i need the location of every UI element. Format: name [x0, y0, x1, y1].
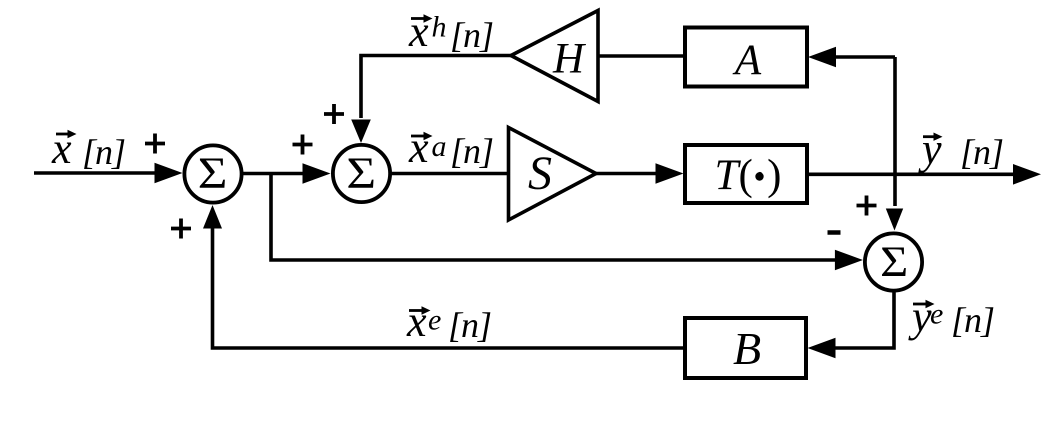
plus sign at sum2 left input — [293, 135, 313, 155]
svg-text:y: y — [908, 292, 932, 341]
wire box A output to H input — [598, 54, 685, 58]
summing junction sum2 — [333, 145, 390, 202]
arrowhead into box B right — [808, 338, 836, 359]
wire output y[n] — [806, 173, 1014, 177]
svg-text:Σ: Σ — [198, 149, 228, 198]
arrowhead into box A right — [808, 47, 836, 68]
svg-text:T(·): T(·) — [715, 152, 782, 199]
box B — [685, 318, 806, 378]
svg-text:[n]: [n] — [450, 131, 493, 171]
svg-text:A: A — [732, 37, 762, 84]
wire tap from output vertical to box A — [836, 55, 895, 59]
gain triangle S — [509, 128, 597, 221]
plus sign at input — [145, 134, 165, 154]
label ye[n] below sum3 — [908, 292, 994, 341]
summing junction sum1 — [184, 145, 241, 202]
wire input x[n] — [34, 171, 158, 175]
arrowhead into sum3 top — [886, 209, 903, 231]
svg-text:x: x — [406, 297, 427, 346]
wire branch node down then right to sum3 — [271, 174, 836, 261]
svg-text:x: x — [408, 7, 429, 56]
svg-text:e: e — [428, 304, 441, 337]
wire from H output left then down into sum2 top — [361, 56, 511, 119]
svg-text:[n]: [n] — [82, 132, 125, 172]
svg-text:Σ: Σ — [880, 237, 908, 285]
svg-text:[n]: [n] — [960, 132, 1003, 172]
wire vertical tap down to sum3 top — [893, 57, 897, 206]
wire S output to box T — [596, 172, 657, 176]
wire sum3 output down then left to box B — [835, 292, 894, 348]
arrowhead into sum3 left — [835, 250, 863, 271]
svg-text:x: x — [408, 123, 429, 172]
plus sign at sum1 bottom input — [171, 219, 191, 239]
arrowhead output right — [1013, 164, 1041, 185]
summing junction sum3 — [865, 233, 922, 290]
arrowhead input into sum1 — [155, 163, 183, 184]
wire box B output left then up to sum1 bottom — [213, 227, 686, 348]
svg-text:H: H — [552, 35, 586, 82]
plus sign at sum3 top input — [857, 196, 877, 216]
plus sign at sum2 top input — [324, 104, 344, 124]
wire sum2 output to S input — [389, 172, 510, 176]
label xe[n] on feedback wire — [406, 297, 491, 346]
gain triangle H — [511, 11, 598, 102]
svg-text:[n]: [n] — [951, 300, 994, 340]
svg-text:[n]: [n] — [448, 305, 491, 345]
box T(.) — [685, 145, 807, 203]
svg-text:h: h — [432, 11, 447, 44]
arrowhead into box T left — [656, 163, 684, 184]
svg-text:Σ: Σ — [346, 149, 376, 198]
svg-text:a: a — [432, 130, 447, 163]
svg-text:[n]: [n] — [450, 15, 493, 55]
label y[n] at output — [918, 125, 1003, 174]
minus sign at sum3 left input — [828, 230, 841, 235]
svg-text:S: S — [528, 147, 552, 200]
arrowhead into sum1 bottom — [203, 205, 222, 229]
arrowhead into sum2 left — [303, 163, 331, 184]
wire sum1 to sum2 — [242, 172, 305, 176]
label xa[n] between sum2 and S — [408, 123, 493, 172]
svg-text:e: e — [930, 298, 943, 331]
label xh[n] above sum2 feed — [408, 7, 493, 56]
svg-text:B: B — [733, 323, 761, 374]
arrowhead into sum2 top — [351, 120, 371, 144]
label x[n] at input — [51, 124, 125, 173]
box A — [685, 28, 807, 87]
svg-text:y: y — [918, 125, 942, 174]
